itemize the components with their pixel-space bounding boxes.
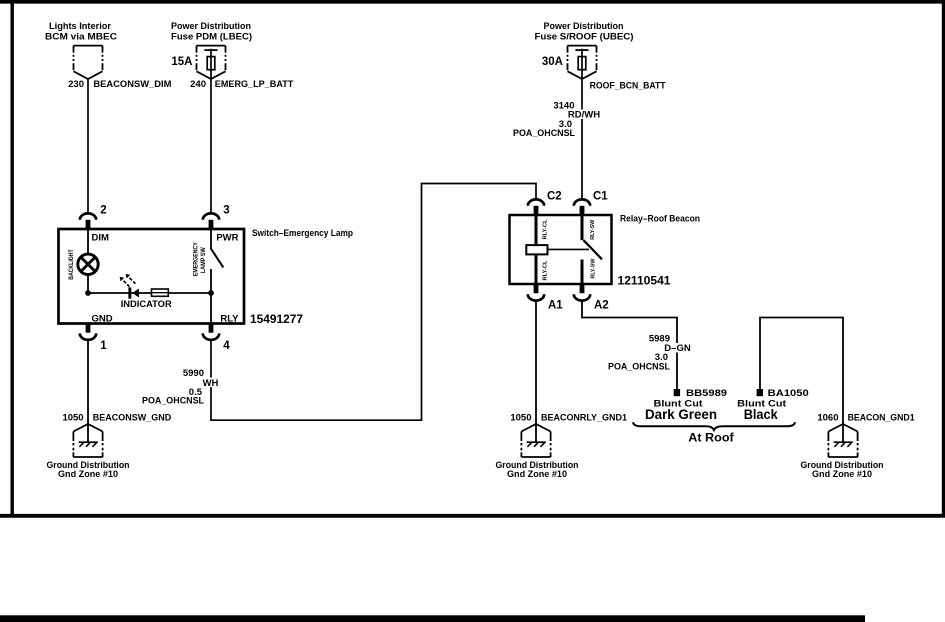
wire relay switch lower contact A2 (581, 260, 584, 285)
svg-text:BEACONSW_GND: BEACONSW_GND (93, 412, 172, 423)
svg-text:Lights Interior: Lights Interior (49, 21, 111, 32)
label Ground Distribution / Gnd Zone #10 (center) (496, 460, 579, 480)
wire switch lower contact to RLY pin (210, 269, 212, 324)
label 1050 BEACONSW_GND (62, 412, 171, 423)
svg-text:5990: 5990 (183, 368, 204, 379)
label EMERGENCY LAMP SW (rotated) (192, 242, 207, 277)
svg-text:2: 2 (100, 204, 106, 216)
svg-text:1: 1 (100, 340, 107, 352)
wire lamp to gnd junction (87, 275, 89, 294)
svg-text:A2: A2 (594, 299, 609, 311)
svg-text:Gnd Zone #10: Gnd Zone #10 (58, 469, 118, 480)
border frame top (0, 0, 945, 4)
svg-text:D–GN: D–GN (664, 343, 691, 354)
svg-text:DIM: DIM (92, 233, 110, 244)
svg-text:1050: 1050 (62, 412, 83, 423)
relay switch blade (584, 240, 603, 259)
svg-text:30A: 30A (542, 56, 563, 68)
svg-text:Black: Black (744, 407, 778, 422)
label 3140 RD/WH 3.0 POA_OHCNSL (513, 101, 600, 140)
svg-text:Switch–Emergency Lamp: Switch–Emergency Lamp (252, 228, 353, 239)
svg-text:Gnd Zone #10: Gnd Zone #10 (812, 469, 872, 480)
label 5989 D-GN 3.0 POA_OHCNSL (608, 334, 691, 373)
pin 2 connector (switch top left) (80, 204, 107, 229)
svg-text:RLY-SW: RLY-SW (590, 219, 596, 239)
svg-text:RLY-SW: RLY-SW (590, 258, 596, 278)
svg-text:1050: 1050 (510, 412, 531, 423)
wire from ground 1060 up over to blunt cut BA1050 (760, 318, 843, 443)
label 1060 BEACON_GND1 (817, 412, 915, 423)
svg-text:A1: A1 (548, 299, 563, 311)
ground G3 (right) (828, 424, 857, 457)
svg-text:BEACON_GND1: BEACON_GND1 (848, 412, 916, 423)
svg-text:RD/WH: RD/WH (568, 110, 600, 121)
svg-text:15491277: 15491277 (250, 314, 303, 326)
svg-text:ROOF_BCN_BATT: ROOF_BCN_BATT (590, 81, 666, 92)
svg-text:Relay–Roof Beacon: Relay–Roof Beacon (620, 214, 700, 225)
border frame left (10, 0, 13, 518)
blunt cut BA1050 (757, 389, 763, 396)
svg-text:POA_OHCNSL: POA_OHCNSL (608, 361, 670, 372)
svg-text:Fuse S/ROOF (UBEC): Fuse S/ROOF (UBEC) (535, 32, 634, 43)
wire ROOF_BCN_BATT / POA_OHCNSL from fuse to relay pin C1 (581, 79, 583, 200)
pin A1 connector (relay bottom left) (528, 284, 564, 311)
connector symbol BCM via MBEC (74, 46, 103, 79)
svg-text:LAMP SW: LAMP SW (200, 247, 207, 273)
svg-text:Fuse PDM (LBEC): Fuse PDM (LBEC) (171, 32, 252, 43)
svg-text:4: 4 (223, 340, 230, 352)
svg-text:GND: GND (92, 314, 113, 325)
relay coil (526, 245, 547, 254)
svg-text:INDICATOR: INDICATOR (121, 299, 172, 310)
svg-text:BEACONRLY_GND1: BEACONRLY_GND1 (541, 412, 628, 423)
wire BEACONRLY_GND1 from A1 to ground (535, 301, 537, 443)
svg-text:Dark Green: Dark Green (645, 407, 717, 422)
coil to switch link (548, 248, 590, 250)
svg-text:POA_OHCNSL: POA_OHCNSL (513, 128, 575, 139)
wire indicator branch horizontal (88, 292, 211, 294)
svg-text:12110541: 12110541 (618, 276, 672, 288)
pin 3 connector (switch top right) (203, 204, 230, 229)
wire relay coil top lead (535, 215, 538, 245)
svg-text:POA_OHCNSL: POA_OHCNSL (142, 395, 204, 406)
pin A2 connector (relay bottom right) (574, 284, 609, 311)
wire BEACONSW_DIM from BCM to switch pin 2 (87, 79, 89, 214)
label 240 EMERG_LP_BATT (190, 79, 293, 90)
resistor of indicator (152, 289, 169, 296)
node junction RLY line (208, 290, 214, 296)
svg-text:230: 230 (68, 79, 84, 90)
bottom black bar (0, 615, 865, 622)
label Ground Distribution / Gnd Zone #10 (left) (47, 460, 130, 480)
label Power Distribution / Fuse PDM (LBEC) (171, 21, 252, 43)
svg-text:PWR: PWR (216, 233, 238, 244)
svg-text:WH: WH (203, 378, 219, 389)
ground G1 (left) (73, 424, 102, 457)
pin C1 connector (relay top right) (574, 190, 609, 215)
wire EMERG_LP_BATT from fuse to switch pin 3 (210, 79, 212, 214)
svg-text:RLY: RLY (220, 314, 239, 325)
wire circuit 5989 D-GN from A2 to blunt cut BB5989 (582, 301, 677, 389)
switch contact stub from PWR (210, 229, 212, 248)
svg-text:EMERGENCY: EMERGENCY (192, 242, 199, 277)
wire relay coil bottom lead (535, 254, 538, 284)
svg-text:Gnd Zone #10: Gnd Zone #10 (507, 469, 567, 480)
wire RLY circuit 5990 from pin 4 down and across and up to relay C2 (211, 184, 536, 421)
blunt cut BB5989 (674, 389, 680, 396)
ground G2 (center) (521, 424, 550, 457)
switch box S1 Switch-Emergency Lamp (59, 229, 245, 324)
label 5990 WH 0.5 POA_OHCNSL (142, 368, 219, 406)
label Power Distribution / Fuse S/ROOF (UBEC) (535, 21, 634, 43)
svg-text:At Roof: At Roof (688, 433, 734, 445)
brace At Roof (633, 422, 795, 430)
pin C2 connector (relay top left) (528, 190, 562, 215)
svg-text:240: 240 (190, 79, 206, 90)
wire DIM pin to backlight lamp (87, 229, 89, 255)
svg-text:3: 3 (223, 204, 229, 216)
label Lights Interior / BCM via MBEC (45, 21, 117, 43)
LED indicator symbol (128, 287, 139, 298)
LED emission arrows (124, 278, 136, 287)
label Ground Distribution / Gnd Zone #10 (right) (801, 460, 884, 480)
svg-text:EMERG_LP_BATT: EMERG_LP_BATT (215, 79, 294, 90)
border frame bottom (0, 514, 945, 518)
fuse PDM (LBEC) 15A symbol (197, 46, 226, 79)
svg-text:C2: C2 (547, 190, 562, 202)
svg-text:Power Distribution: Power Distribution (171, 21, 251, 32)
svg-text:RLY-CL: RLY-CL (542, 219, 548, 239)
pin 4 connector (switch bottom right) (203, 324, 231, 352)
border frame right (942, 0, 945, 518)
svg-text:BEACONSW_DIM: BEACONSW_DIM (93, 79, 171, 90)
svg-text:C1: C1 (593, 190, 608, 202)
relay box K1 Relay-Roof Beacon (510, 215, 612, 284)
wire BEACONSW_GND from pin 1 to ground (87, 341, 89, 442)
backlight lamp symbol (78, 254, 98, 274)
node junction on GND line (85, 290, 91, 296)
wire relay switch top stub C1 (581, 215, 584, 240)
svg-text:Power Distribution: Power Distribution (544, 21, 624, 32)
svg-text:BACKLIGHT: BACKLIGHT (68, 249, 75, 280)
pin 1 connector (switch bottom left) (80, 324, 108, 352)
fuse S/ROOF (UBEC) 30A symbol (568, 46, 597, 79)
label 1050 BEACONRLY_GND1 (510, 412, 627, 423)
switch blade emergency lamp sw (211, 248, 224, 267)
svg-text:1060: 1060 (817, 412, 838, 423)
label 230 BEACONSW_DIM (68, 79, 171, 90)
svg-text:RLY-CL: RLY-CL (542, 260, 548, 280)
svg-text:BCM via MBEC: BCM via MBEC (45, 32, 117, 43)
svg-text:15A: 15A (171, 56, 192, 68)
